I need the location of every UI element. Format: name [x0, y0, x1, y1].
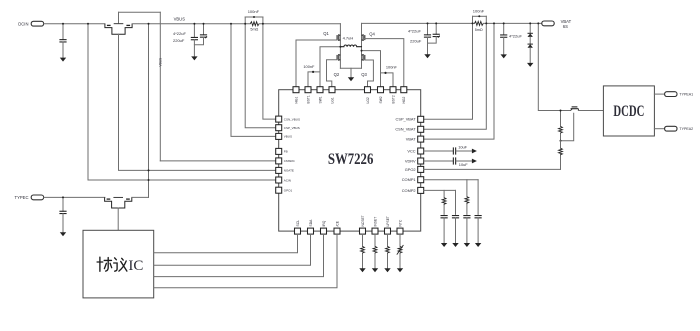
svg-text:NCSET: NCSET: [361, 215, 365, 226]
capacitor C1 (DCIN input cap): [62, 24, 64, 40]
protocol IC block: [83, 230, 154, 298]
pin LG1: [329, 87, 335, 93]
pin BST2: [390, 87, 396, 93]
pin VCC: [418, 148, 424, 154]
wire COMP1: [424, 179, 478, 181]
svg-text:CSP_VBAT: CSP_VBAT: [396, 117, 417, 122]
junction dot: [62, 23, 64, 25]
svg-text:SW1: SW1: [318, 96, 322, 103]
wire VBAT to DCDC: [538, 23, 570, 110]
port TYPEA1: [665, 92, 677, 97]
capacitor C12 comp1b: [477, 180, 479, 215]
svg-text:6S: 6S: [563, 24, 568, 29]
ground: [60, 58, 66, 62]
svg-text:VBUS: VBUS: [174, 16, 186, 21]
resistor R9 LPSET: [387, 234, 389, 246]
svg-text:SW7226: SW7226: [328, 151, 374, 168]
pin CSP_VBUS: [276, 125, 282, 131]
wire right leg: [361, 23, 363, 68]
capacitor C13 comp2: [441, 216, 448, 218]
pin CMSRC: [276, 158, 282, 164]
svg-text:SCL: SCL: [296, 220, 300, 227]
wire kelvin CSN_VBUS: [263, 17, 276, 119]
label protocol IC (hand drawn CJK xie yi + IC): [97, 257, 127, 271]
ground: [372, 268, 378, 272]
wire CMSRC to pin: [160, 160, 275, 162]
pin VBUS: [276, 133, 282, 139]
svg-text:/CE: /CE: [335, 220, 339, 226]
capacitor C9 10uF on VCC: [424, 150, 453, 152]
transistor Q2: [337, 54, 340, 61]
svg-text:HG1: HG1: [294, 97, 298, 104]
dual mosfet Q5 (input back-to-back pair): [105, 24, 132, 35]
wire SCL: [154, 234, 298, 253]
resistor R10 NTC: [399, 234, 401, 246]
svg-text:COMP2: COMP2: [402, 188, 416, 193]
junction dot: [148, 23, 150, 25]
svg-text:FB: FB: [284, 150, 288, 154]
capacitor C10 10uF on VDRV: [424, 160, 453, 162]
wire SW1 to pin: [320, 47, 340, 87]
svg-text:TYPEA1: TYPEA1: [679, 93, 693, 97]
resistor R6 divider bottom: [560, 141, 562, 148]
svg-text:CSN_VBUS: CSN_VBUS: [284, 117, 300, 121]
wire VBUS feed to TYPEC switch: [148, 24, 150, 198]
svg-text:CSN_VBAT: CSN_VBAT: [395, 127, 416, 132]
junction dot ACIN cross: [148, 179, 150, 181]
ground: [452, 243, 458, 247]
svg-text:CMSRC: CMSRC: [284, 159, 296, 163]
svg-text:SW2: SW2: [379, 96, 383, 103]
svg-text:NTC: NTC: [398, 219, 402, 226]
transistor Q1: [337, 34, 340, 41]
diode D1 TVS: [529, 23, 531, 33]
svg-text:DCDC: DCDC: [613, 103, 644, 120]
wire Q2 gate to pin LG1: [327, 60, 338, 87]
svg-text:INSET: INSET: [373, 217, 377, 227]
wire VBUS pin: [231, 24, 276, 137]
junction dot: [493, 22, 495, 24]
pin CSN_VBUS: [276, 116, 282, 122]
svg-text:100nF: 100nF: [386, 65, 398, 70]
capacitor C7 220uF electrolytic: [435, 23, 437, 34]
inductor L1 4.7uH: [340, 45, 361, 47]
junction dot: [339, 46, 341, 48]
wire SDA: [154, 234, 311, 265]
junction dot: [230, 23, 232, 25]
pin CSP_VBAT: [418, 116, 424, 122]
pin ACIN: [276, 177, 282, 183]
svg-text:BST1: BST1: [306, 95, 310, 103]
port DCIN: [31, 21, 43, 26]
capacitor C4 100nF bootstrap1: [308, 72, 320, 87]
pin COMP2: [418, 187, 424, 193]
pin FB: [276, 148, 282, 154]
ground: [441, 243, 447, 247]
junction dot: [203, 23, 205, 25]
wire rail FET to sense resistor: [132, 23, 250, 25]
capacitor C14 comp2b: [455, 190, 457, 214]
wire Q5 gate tie vertical: [118, 12, 120, 23]
svg-text:IC: IC: [128, 258, 143, 274]
svg-text:NGATE: NGATE: [284, 169, 294, 173]
svg-text:ACIN: ACIN: [284, 178, 291, 182]
resistor R8 INSET: [374, 234, 376, 246]
wire source bar Q2 Q3: [340, 67, 361, 69]
dual mosfet Q7 typec switch: [105, 197, 132, 208]
wire typec switch to VBUS feed: [132, 196, 149, 198]
wire sense bridge: [245, 16, 263, 18]
pin NTC: [397, 228, 403, 234]
ground: [191, 56, 197, 60]
ground: [464, 243, 470, 247]
wire sense2 bridge: [473, 15, 487, 17]
junction dot: [193, 23, 195, 25]
wire to power ground: [350, 68, 352, 77]
resistor R4 comp2: [443, 190, 445, 197]
pin VDRV: [418, 158, 424, 164]
junction dot: [253, 16, 255, 18]
pin VBAT: [418, 136, 424, 142]
pin GPO2: [418, 166, 424, 172]
ground: [475, 243, 481, 247]
svg-text:LG1: LG1: [330, 97, 334, 103]
ground sideways: [472, 149, 477, 154]
wire NGATE from Q5 common node: [119, 34, 276, 170]
svg-text:4*22uF: 4*22uF: [509, 33, 522, 38]
DCDC block: [603, 86, 654, 136]
pin SDA: [308, 228, 314, 234]
wire /CE: [154, 234, 337, 288]
capacitor C8 4*22uF: [503, 23, 505, 35]
wire rail2 Q4 to sense2: [362, 22, 475, 24]
resistor R5 divider top: [560, 111, 562, 127]
thermistor arrow on NTC: [397, 245, 404, 255]
op-amp U1 SW7226 main IC body: [279, 90, 421, 231]
pin LG2: [365, 87, 371, 93]
svg-text:Q1: Q1: [323, 31, 329, 36]
wire kelvin CSP_VBUS: [245, 17, 275, 128]
svg-text:GPO2: GPO2: [405, 167, 416, 172]
capacitor C15 typec: [62, 197, 64, 211]
wire Q7 common to protocol IC: [117, 208, 119, 230]
svg-text:LG2: LG2: [366, 97, 370, 103]
svg-text:100nF: 100nF: [303, 64, 315, 69]
pin NGATE: [276, 167, 282, 173]
capacitor C6 4*22uF: [427, 23, 429, 34]
pin BST1: [305, 87, 311, 93]
wire SW2 to pin: [362, 51, 381, 87]
pin COMP1: [418, 177, 424, 183]
pin SW1: [317, 87, 323, 93]
wire COMP2: [424, 189, 456, 191]
svg-text:220uF: 220uF: [410, 38, 422, 43]
svg-text:4*22uF: 4*22uF: [408, 29, 421, 34]
wire Q1 gate to pin HG1: [296, 40, 337, 87]
capacitor C11 comp1: [463, 216, 470, 218]
svg-text:4.7uH: 4.7uH: [343, 35, 354, 40]
svg-text:LPSET: LPSET: [386, 216, 390, 226]
pin CSN_VBAT: [418, 126, 424, 132]
svg-text:COMP1: COMP1: [402, 177, 416, 182]
wire CMSRC vertical: [159, 12, 161, 161]
svg-text:VDRV: VDRV: [405, 158, 416, 163]
resistor R3 comp1: [466, 180, 468, 197]
svg-text:Q4: Q4: [369, 32, 375, 37]
wire GPO2 to divider: [424, 168, 561, 170]
ground: [527, 63, 533, 67]
pin NCSET: [360, 228, 366, 234]
wire kelvin CSN_VBAT: [424, 16, 487, 129]
svg-text:BST2: BST2: [391, 95, 395, 103]
transistor Q3: [362, 54, 365, 61]
ground: [424, 54, 430, 58]
pin IRQ: [321, 228, 327, 234]
svg-text:TYPEA2: TYPEA2: [679, 127, 693, 131]
svg-text:VBUS: VBUS: [284, 135, 292, 139]
pin HG2: [401, 87, 407, 93]
svg-text:VBAT: VBAT: [406, 137, 416, 142]
pin SCL: [295, 228, 301, 234]
svg-text:GPO1: GPO1: [284, 189, 293, 193]
wire VBAT pin: [424, 23, 494, 139]
pin INSET: [372, 228, 378, 234]
svg-text:TYPEC: TYPEC: [15, 195, 29, 200]
svg-text:100nF: 100nF: [248, 9, 260, 14]
wire gate loop over Q5: [119, 11, 161, 13]
svg-text:HG2: HG2: [402, 97, 406, 104]
diode D2 TVS: [528, 44, 533, 47]
svg-text:Q2: Q2: [334, 72, 340, 77]
svg-text:VBUS: VBUS: [159, 58, 163, 67]
svg-text:220uF: 220uF: [173, 38, 185, 43]
port TYPEA2: [665, 126, 677, 131]
svg-text:VCC: VCC: [407, 148, 415, 153]
svg-text:10uF: 10uF: [458, 144, 467, 149]
port VBAT 6S: [542, 21, 554, 26]
wire DCDC out1: [654, 93, 664, 95]
svg-text:IRQ: IRQ: [322, 220, 326, 226]
wire TYPEC rail: [44, 196, 105, 198]
junction dot NGATE cross: [148, 169, 150, 171]
ground sideways: [472, 159, 477, 164]
svg-text:SDA: SDA: [309, 219, 313, 227]
capacitor C2 4*22uF: [193, 24, 195, 38]
svg-text:5mΩ: 5mΩ: [475, 28, 483, 32]
transistor Q6 DCDC switch: [571, 108, 579, 110]
svg-text:Q3: Q3: [361, 72, 367, 77]
resistor R1 2m&#937; current sense VBUS: [250, 22, 259, 26]
transistor Q4: [362, 34, 365, 41]
capacitor C3 220uF electrolytic: [203, 24, 205, 35]
wire DCDC out2: [654, 128, 664, 130]
wire Q3 gate to pin LG2: [365, 60, 374, 87]
pin LPSET: [385, 228, 391, 234]
wire divider tap to gate: [561, 113, 574, 141]
junction dot: [361, 50, 363, 52]
capacitor C5 100nF bootstrap2: [381, 73, 394, 87]
pin GPO1: [276, 187, 282, 193]
svg-text:10uF: 10uF: [459, 162, 468, 167]
ground: [348, 77, 354, 81]
wire FET to DCDC box: [578, 110, 603, 112]
svg-text:CSP_VBUS: CSP_VBUS: [284, 126, 300, 130]
wire kelvin CSP_VBAT: [424, 16, 473, 119]
port TYPEC: [31, 195, 43, 200]
wire rail2 sense to VBAT port: [483, 22, 542, 24]
resistor R2 2m&#937; current sense VBAT: [475, 21, 484, 25]
svg-text:4*22uF: 4*22uF: [173, 31, 186, 36]
wire rail sense to Q1: [259, 23, 340, 25]
ground: [501, 54, 507, 58]
junction dot: [478, 15, 480, 17]
pin SW2: [378, 87, 384, 93]
ground: [60, 232, 66, 236]
ground: [359, 268, 365, 272]
wire DCIN rail to Q5 pair: [44, 23, 105, 25]
pin /CE: [334, 228, 340, 234]
pin HG1: [293, 87, 299, 93]
resistor R7 NCSET: [362, 234, 364, 246]
wire Q4 gate to pin HG2: [365, 39, 404, 87]
svg-text:DCIN: DCIN: [18, 21, 28, 26]
svg-text:5mΩ: 5mΩ: [250, 28, 258, 32]
wire ACIN from rail: [88, 24, 276, 180]
wire Q1 drain from rail: [339, 24, 341, 69]
ground: [397, 268, 403, 272]
wire IRQ: [154, 234, 324, 276]
ground: [384, 268, 390, 272]
junction dot: [87, 23, 89, 25]
svg-text:100nF: 100nF: [473, 8, 485, 13]
